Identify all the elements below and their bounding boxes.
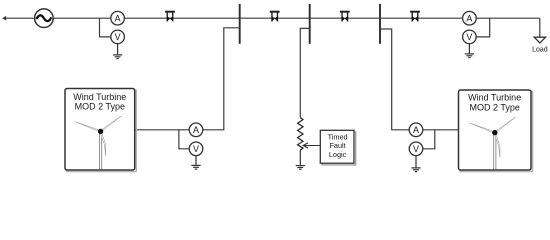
svg-text:V: V: [413, 144, 419, 154]
svg-text:A: A: [413, 125, 419, 135]
svg-text:V: V: [466, 32, 472, 42]
svg-text:A: A: [115, 14, 121, 24]
svg-text:MOD 2 Type: MOD 2 Type: [75, 102, 125, 112]
svg-text:Wind Turbine: Wind Turbine: [468, 93, 521, 103]
svg-text:MOD 2 Type: MOD 2 Type: [470, 102, 520, 112]
svg-text:Logic: Logic: [329, 150, 347, 159]
svg-text:V: V: [115, 32, 121, 42]
svg-text:V: V: [193, 144, 199, 154]
svg-text:A: A: [466, 14, 472, 24]
svg-text:A: A: [193, 125, 199, 135]
svg-text:Fault: Fault: [329, 141, 345, 150]
svg-text:Load: Load: [532, 46, 548, 53]
svg-text:Wind Turbine: Wind Turbine: [73, 92, 126, 102]
